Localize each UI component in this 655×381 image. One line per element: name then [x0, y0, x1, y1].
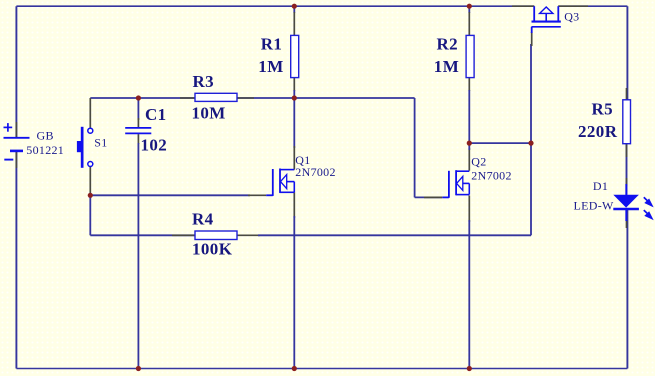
junction at Q2 source on ground rail [467, 366, 472, 371]
wire: Q1 drain riser from gate rail [293, 98, 295, 148]
wire: Q2 drain node to Q3 gate node [469, 142, 531, 144]
svg-text:R5: R5 [592, 99, 614, 118]
junction at R1 top on power rail [292, 4, 297, 9]
wire: R4 rail right segment to riser [258, 234, 531, 236]
svg-text:1M: 1M [434, 57, 459, 76]
junction at C1 top on gate rail [136, 95, 141, 100]
wire: R1 top pin stub [293, 12, 295, 35]
resistor R2 [466, 35, 474, 77]
wire: Q2 drain pin stub [468, 148, 470, 171]
wire: C1 bottom pin stub [137, 134, 139, 144]
wire: right branch top rail to R5 [626, 6, 628, 100]
wire: Q2 gate horizontal wire [415, 196, 442, 198]
transistor Q1 2N7002 [273, 169, 295, 196]
wire: battery bottom pin stub [15, 151, 17, 168]
wire: Q3 gate pin stub [531, 32, 533, 46]
wire: C1 bottom to ground rail [137, 143, 139, 369]
svg-text:GB: GB [37, 128, 54, 142]
wire: R1 bottom pin stub [293, 78, 295, 91]
svg-text:Q2: Q2 [471, 155, 486, 169]
junction at Q2 drain node [467, 141, 472, 146]
svg-text:102: 102 [141, 136, 168, 155]
svg-text:C1: C1 [145, 105, 167, 124]
wire: battery bottom to ground rail [15, 151, 17, 369]
wire: battery top pin stub [15, 122, 17, 138]
wire: R2 top lead [468, 6, 470, 13]
wire: R5 top pin stub [626, 88, 628, 100]
svg-text:R4: R4 [192, 210, 214, 229]
transistor Q3 (P-channel) [532, 6, 561, 33]
capacitor C1 [125, 128, 151, 133]
svg-text:2N7002: 2N7002 [471, 169, 511, 183]
wire: gate rail at y=97 from S1 top to Q2 gate drop [90, 97, 414, 99]
resistor R3 [195, 93, 237, 101]
resistor R1 [291, 35, 299, 77]
junction at S1 bottom node [88, 193, 93, 198]
wire: R3 right pin stub [237, 97, 254, 99]
wire: Q2 gate pin stub [424, 196, 442, 198]
wire: Q1 gate wire from node junction [90, 194, 250, 196]
wire: D1 top pin stub [626, 178, 628, 186]
wire: Q2 drain node riser [468, 143, 470, 150]
wire: D1 cathode pin stub [626, 210, 628, 228]
wire: Q1 source to ground rail [293, 216, 295, 369]
svg-text:S1: S1 [94, 135, 107, 149]
wire: D1 anode lead (blue) [625, 184, 627, 195]
wire: Q1 drain pin stub [293, 146, 295, 170]
battery GB 501221 [4, 123, 30, 160]
wire: R4 right pin stub [237, 234, 260, 236]
wire: top power rail (right segment, Q3 drain side) [558, 5, 627, 7]
wire: R4 rail left segment [90, 234, 195, 236]
transistor Q2 2N7002 [449, 170, 469, 198]
svg-text:2N7002: 2N7002 [295, 165, 335, 179]
junction at Q3 gate node [528, 141, 533, 146]
wire: Q1 gate pin stub [248, 194, 266, 196]
wire: R4 left pin stub [172, 234, 195, 236]
wire: R5 bottom to LED D1 [626, 144, 628, 195]
resistor R4 [195, 231, 237, 240]
wire: C1 top lead from gate rail [137, 98, 139, 120]
wire: R2 top pin stub [468, 12, 470, 35]
wire: S1 bottom to node junction [89, 166, 91, 195]
svg-text:Q3: Q3 [564, 10, 579, 24]
wire: ground rail [16, 368, 627, 370]
wire: Q2 source pin stub [468, 196, 470, 223]
LED D1 [613, 195, 652, 219]
wire: R5 bottom pin stub [626, 144, 628, 157]
wire: Q2 gate drop from gate rail [414, 98, 416, 197]
wire: D1 cathode lead (blue) [625, 210, 627, 221]
resistor R5 [623, 100, 631, 144]
wire: R2 bottom lead to Q2 drain node [468, 90, 470, 143]
junction at Q1 source on ground rail [292, 366, 297, 371]
wire: Q3 gate node riser up [530, 44, 532, 143]
wire: Q1 gate lead (blue) [266, 194, 273, 196]
wire: R1 bottom lead to gate rail [293, 90, 295, 98]
svg-text:R2: R2 [437, 35, 459, 54]
wire: riser from R4 rail to Q3 gate node [530, 143, 532, 235]
svg-text:501221: 501221 [26, 143, 64, 157]
svg-text:220R: 220R [578, 122, 618, 141]
svg-text:100K: 100K [192, 239, 233, 258]
svg-text:1M: 1M [258, 57, 283, 76]
wire: R3 left pin stub [180, 97, 195, 99]
wire: Q2 source to ground rail [468, 220, 470, 369]
wire: C1 top pin stub [137, 118, 139, 127]
wire: node junction down to R4 rail [89, 195, 91, 235]
junction at C1 bottom on ground rail [136, 366, 141, 371]
wire: Q3 source side pin stub [512, 5, 534, 7]
svg-text:LED-W: LED-W [574, 199, 615, 213]
junction at R2 top on power rail [467, 4, 472, 9]
wire: Q2 gate lead (blue) [442, 196, 449, 198]
wire: left branch, battery top to top rail [15, 6, 17, 138]
svg-text:R1: R1 [261, 35, 283, 54]
pushbutton S1 [77, 127, 93, 168]
svg-text:D1: D1 [593, 179, 608, 193]
wire: D1 cathode to ground rail [626, 210, 628, 369]
LED light arrow 1 [644, 197, 652, 205]
wire: Q3 drain pin stub [558, 5, 588, 7]
wire: R2 bottom pin stub [468, 78, 470, 91]
LED light arrow 2 [644, 210, 652, 218]
wire: Q1 source pin stub [293, 192, 295, 218]
wire: R1 top lead [293, 6, 295, 13]
wire: S1 top drop [89, 98, 91, 128]
wire: top power rail (left segment) [16, 5, 534, 7]
junction at R1 bottom on gate rail [292, 95, 297, 100]
svg-text:10M: 10M [192, 104, 226, 123]
svg-text:R3: R3 [193, 72, 215, 91]
